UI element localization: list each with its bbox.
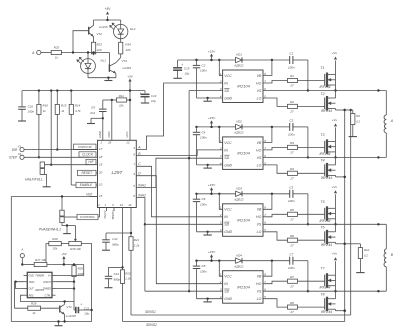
- svg-text:C12: C12: [112, 237, 118, 241]
- svg-text:2: 2: [100, 141, 103, 145]
- svg-text:+Vs: +Vs: [332, 118, 338, 122]
- svg-text:27: 27: [289, 243, 294, 247]
- svg-text:ENABLE: ENABLE: [80, 183, 93, 187]
- svg-text:R1: R1: [290, 74, 294, 78]
- svg-text:+15V: +15V: [208, 183, 216, 187]
- svg-text:R18 10k: R18 10k: [70, 247, 81, 251]
- svg-text:SYNC: SYNC: [103, 211, 107, 220]
- svg-text:10µ: 10µ: [84, 312, 89, 316]
- svg-text:R20: R20: [78, 267, 84, 271]
- svg-text:VB: VB: [257, 141, 262, 145]
- svg-text:100n: 100n: [288, 65, 295, 69]
- svg-text:27: 27: [289, 284, 294, 288]
- svg-text:T1: T1: [321, 66, 325, 70]
- svg-text:100n: 100n: [200, 269, 207, 273]
- svg-text:+15V: +15V: [208, 250, 216, 254]
- svg-text:LO: LO: [257, 230, 262, 234]
- svg-text:SENS1: SENS1: [145, 310, 156, 314]
- svg-text:+Vs: +Vs: [332, 51, 338, 55]
- svg-text:GND: GND: [98, 130, 102, 138]
- svg-text:T8: T8: [321, 293, 325, 297]
- svg-text:R23: R23: [97, 43, 103, 47]
- svg-text:R19: R19: [52, 237, 58, 241]
- svg-text:LO: LO: [257, 163, 262, 167]
- svg-text:C16: C16: [28, 105, 34, 109]
- svg-text:VS: VS: [257, 156, 262, 160]
- svg-text:IR2104: IR2104: [237, 84, 250, 89]
- svg-text:R26: R26: [31, 302, 37, 306]
- svg-text:20k: 20k: [52, 246, 58, 250]
- svg-text:R11: R11: [119, 94, 124, 98]
- svg-text:12: 12: [126, 141, 130, 145]
- svg-text:27: 27: [289, 217, 294, 221]
- svg-text:IN: IN: [224, 215, 228, 219]
- svg-text:кт315: кт315: [99, 25, 108, 29]
- svg-text:HO: HO: [256, 148, 262, 152]
- svg-text:C14: C14: [151, 94, 157, 98]
- svg-text:13: 13: [120, 203, 124, 207]
- svg-text:+: +: [181, 63, 183, 67]
- svg-text:IRFZ44: IRFZ44: [321, 109, 332, 113]
- svg-text:GND: GND: [224, 230, 232, 234]
- svg-text:PHASE/INH1,2: PHASE/INH1,2: [39, 228, 62, 232]
- svg-text:VCC: VCC: [224, 208, 232, 212]
- svg-text:T5: T5: [321, 200, 325, 204]
- svg-text:IR2104: IR2104: [237, 284, 250, 289]
- svg-text:OUT: OUT: [29, 288, 35, 291]
- svg-text:+Vs: +Vs: [332, 252, 338, 256]
- svg-text:C4: C4: [201, 130, 205, 134]
- svg-text:680p: 680p: [114, 277, 121, 281]
- svg-text:GND: GND: [224, 163, 232, 167]
- svg-text:19: 19: [99, 162, 103, 166]
- svg-text:VD4: VD4: [236, 253, 242, 257]
- svg-text:14: 14: [128, 203, 132, 207]
- svg-text:C2: C2: [201, 63, 205, 67]
- svg-text:100n: 100n: [288, 199, 295, 203]
- svg-text:HOME: HOME: [111, 211, 115, 221]
- svg-text:HL1: HL1: [101, 59, 107, 63]
- svg-text:IRFZ44: IRFZ44: [321, 310, 332, 314]
- svg-text:INH1: INH1: [138, 183, 146, 187]
- svg-text:CTRL: CTRL: [45, 294, 52, 297]
- svg-text:4.7k: 4.7k: [75, 109, 81, 113]
- svg-text:27: 27: [289, 310, 294, 314]
- svg-text:IRFZ44: IRFZ44: [320, 152, 331, 156]
- svg-text:CONTROL: CONTROL: [80, 215, 95, 219]
- svg-text:1k: 1k: [55, 56, 59, 60]
- svg-text:2: 2: [219, 280, 222, 284]
- svg-text:RESET: RESET: [81, 171, 93, 175]
- svg-text:TRIG: TRIG: [29, 281, 35, 284]
- svg-text:2.2k: 2.2k: [124, 277, 131, 281]
- svg-text:R22: R22: [125, 271, 131, 275]
- svg-text:100n: 100n: [200, 69, 207, 73]
- svg-text:VD3: VD3: [236, 186, 242, 190]
- svg-text:SD: SD: [224, 89, 229, 93]
- svg-text:R21: R21: [134, 238, 140, 242]
- svg-text:HO: HO: [256, 282, 262, 286]
- svg-text:IRFZ44: IRFZ44: [320, 286, 331, 290]
- svg-text:DISCH: DISCH: [43, 281, 51, 284]
- svg-text:+Vs: +Vs: [332, 185, 338, 189]
- svg-text:GND: GND: [224, 297, 232, 301]
- svg-text:10: 10: [99, 183, 103, 187]
- svg-text:R2: R2: [290, 100, 294, 104]
- svg-text:IN: IN: [224, 81, 228, 85]
- svg-text:IRFZ44: IRFZ44: [321, 243, 332, 247]
- svg-text:R14: R14: [75, 104, 81, 108]
- svg-text:1k: 1k: [32, 311, 36, 315]
- svg-text:VD1: VD1: [236, 53, 242, 57]
- svg-text:VB: VB: [257, 74, 262, 78]
- svg-text:C9: C9: [91, 105, 95, 109]
- svg-text:кт3107: кт3107: [66, 314, 77, 318]
- svg-text:VCC: VCC: [125, 131, 129, 138]
- svg-text:VB: VB: [257, 208, 262, 212]
- svg-text:17: 17: [99, 147, 103, 151]
- svg-text:GND: GND: [224, 96, 232, 100]
- svg-text:C13: C13: [114, 272, 120, 276]
- svg-text:SD: SD: [224, 290, 229, 294]
- svg-text:VCC: VCC: [224, 141, 232, 145]
- svg-text:220: 220: [96, 48, 102, 52]
- svg-text:100n: 100n: [288, 266, 295, 270]
- svg-text:C3: C3: [289, 119, 293, 123]
- svg-text:R6: R6: [290, 234, 294, 238]
- svg-text:HL2: HL2: [130, 27, 136, 31]
- svg-text:SENS2: SENS2: [146, 323, 157, 327]
- svg-text:HALF/FULL: HALF/FULL: [25, 177, 43, 181]
- svg-text:HO: HO: [256, 81, 262, 85]
- svg-text:R10: R10: [364, 248, 370, 252]
- svg-text:T6: T6: [321, 226, 325, 230]
- svg-text:22k: 22k: [118, 103, 124, 107]
- svg-text:IN: IN: [224, 148, 228, 152]
- svg-text:GND: GND: [29, 275, 35, 278]
- svg-text:КД522: КД522: [235, 264, 244, 268]
- svg-text:2: 2: [219, 213, 222, 217]
- svg-text:HO: HO: [256, 215, 262, 219]
- svg-text:КД522: КД522: [235, 64, 244, 68]
- svg-text:IRFZ44: IRFZ44: [320, 85, 331, 89]
- svg-text:RES: RES: [29, 294, 34, 297]
- svg-text:1k: 1k: [43, 109, 47, 113]
- svg-text:R7: R7: [290, 275, 294, 279]
- svg-text:+: +: [80, 302, 82, 306]
- svg-text:27: 27: [289, 110, 294, 114]
- svg-text:VT2: VT2: [97, 32, 103, 36]
- svg-text:T2: T2: [321, 92, 325, 96]
- svg-text:C7: C7: [289, 252, 293, 256]
- svg-text:11: 11: [97, 203, 100, 207]
- svg-text:VT3: VT3: [122, 59, 128, 63]
- svg-text:VS: VS: [257, 89, 262, 93]
- svg-text:IR2104: IR2104: [237, 151, 250, 156]
- svg-text:IN: IN: [224, 282, 228, 286]
- svg-text:100n: 100n: [28, 110, 35, 114]
- svg-text:+15V: +15V: [208, 116, 216, 120]
- svg-text:18: 18: [99, 155, 103, 159]
- svg-text:CW/CCW: CW/CCW: [78, 145, 92, 149]
- svg-text:R25: R25: [54, 45, 60, 49]
- svg-text:VCC: VCC: [224, 74, 232, 78]
- svg-text:VD2: VD2: [236, 120, 242, 124]
- svg-text:C6: C6: [201, 197, 205, 201]
- svg-text:R3: R3: [290, 141, 294, 145]
- svg-text:КД522: КД522: [235, 131, 244, 135]
- svg-text:VB: VB: [257, 275, 262, 279]
- svg-text:+5V: +5V: [61, 252, 68, 256]
- svg-text:LO: LO: [257, 297, 262, 301]
- svg-text:VT1: VT1: [66, 305, 72, 309]
- svg-text:SD: SD: [224, 156, 229, 160]
- svg-text:CLOCK: CLOCK: [82, 153, 94, 157]
- svg-text:16: 16: [108, 141, 112, 145]
- svg-text:SD: SD: [224, 223, 229, 227]
- svg-text:2: 2: [219, 79, 222, 83]
- svg-text:+15V: +15V: [208, 49, 216, 53]
- svg-text:R17 10k: R17 10k: [35, 258, 46, 262]
- svg-text:INH2: INH2: [138, 193, 146, 197]
- svg-text:C1: C1: [289, 52, 293, 56]
- svg-text:T3: T3: [321, 133, 325, 137]
- svg-text:VS: VS: [257, 223, 262, 227]
- svg-text:КД522: КД522: [235, 197, 244, 201]
- svg-text:VS: VS: [257, 290, 262, 294]
- svg-text:100n: 100n: [200, 136, 207, 140]
- svg-text:R5: R5: [290, 208, 294, 212]
- svg-text:3n3: 3n3: [90, 111, 95, 115]
- svg-text:R15: R15: [61, 104, 67, 108]
- svg-text:R8: R8: [290, 301, 294, 305]
- svg-text:2.2k: 2.2k: [133, 243, 140, 247]
- svg-text:STEP: STEP: [9, 156, 18, 160]
- svg-text:C8: C8: [201, 264, 205, 268]
- svg-text:THRES: THRES: [43, 288, 52, 291]
- svg-text:IRFZ44: IRFZ44: [320, 219, 331, 223]
- svg-text:0.2: 0.2: [364, 254, 368, 258]
- svg-text:кт361: кт361: [123, 66, 132, 70]
- svg-text:T7: T7: [321, 267, 325, 271]
- svg-text:T4: T4: [321, 159, 325, 163]
- svg-text:A: A: [20, 247, 23, 251]
- svg-text:R9: R9: [356, 114, 360, 118]
- svg-text:IRFZ44: IRFZ44: [321, 176, 332, 180]
- svg-text:0.2: 0.2: [356, 119, 360, 123]
- svg-text:VCC: VCC: [224, 275, 232, 279]
- svg-text:27: 27: [289, 151, 294, 155]
- svg-text:220: 220: [125, 48, 131, 52]
- svg-text:27: 27: [289, 176, 294, 180]
- svg-text:R4: R4: [290, 167, 294, 171]
- svg-text:15: 15: [99, 194, 103, 198]
- svg-text:C15: C15: [184, 66, 190, 70]
- svg-text:TIMER: TIMER: [35, 274, 44, 278]
- svg-text:IR2104: IR2104: [237, 217, 250, 222]
- svg-text:2: 2: [219, 146, 222, 150]
- svg-text:C5: C5: [289, 185, 293, 189]
- svg-text:R16: R16: [43, 104, 49, 108]
- svg-text:20: 20: [98, 171, 103, 175]
- svg-text:10µ: 10µ: [151, 99, 156, 103]
- svg-text:100n: 100n: [200, 202, 207, 206]
- svg-text:R34: R34: [125, 43, 131, 47]
- svg-text:27: 27: [289, 84, 294, 88]
- svg-text:LO: LO: [257, 96, 262, 100]
- svg-text:OSC: OSC: [107, 130, 111, 137]
- svg-text:680p: 680p: [112, 242, 119, 246]
- svg-text:+5V: +5V: [105, 7, 112, 11]
- svg-text:L297: L297: [111, 170, 122, 176]
- svg-text:+5V: +5V: [127, 74, 134, 78]
- svg-text:10µ: 10µ: [184, 71, 189, 75]
- svg-text:100n: 100n: [288, 132, 295, 136]
